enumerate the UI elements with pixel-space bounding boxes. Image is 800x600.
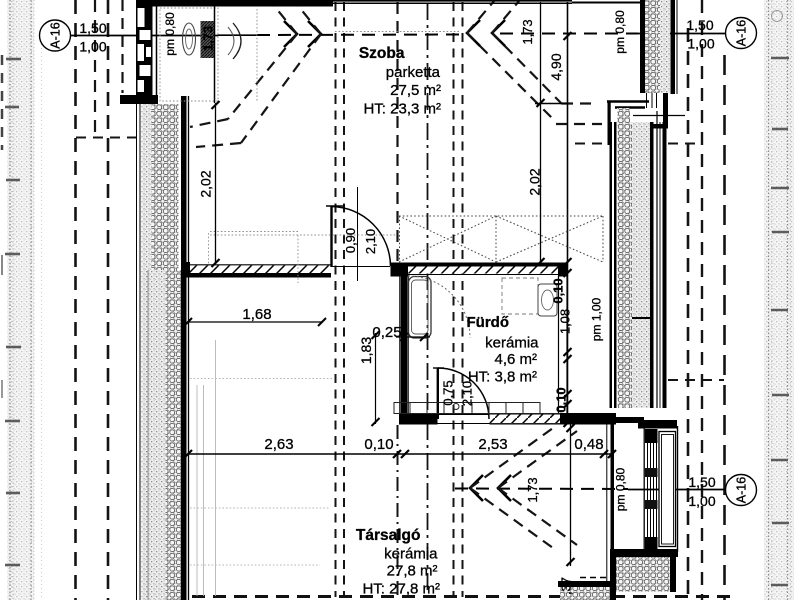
svg-text:2,53: 2,53 <box>478 436 507 453</box>
east wall window sill line (pm 1,00) <box>632 317 653 319</box>
bathtub <box>408 276 470 338</box>
svg-text:1,73: 1,73 <box>525 477 540 502</box>
svg-text:kerámia: kerámia <box>485 335 539 352</box>
svg-text:1,50: 1,50 <box>688 474 715 490</box>
bathroom east wall <box>559 276 568 413</box>
loggia edge line top left <box>214 0 216 103</box>
svg-text:1,08: 1,08 <box>558 309 573 334</box>
svg-text:27,8 m²: 27,8 m² <box>387 563 438 580</box>
skylight dotted box with X braces <box>399 216 603 262</box>
roof hip dashed diagonals top left <box>190 2 321 147</box>
svg-text:Szoba: Szoba <box>359 45 405 62</box>
svg-text:2,10: 2,10 <box>363 229 378 254</box>
svg-text:0,10: 0,10 <box>551 278 566 303</box>
dimension 1,73 bottom right <box>567 424 575 566</box>
west wall window (top left) <box>136 0 157 96</box>
section circle A-16 bottom right <box>726 475 757 506</box>
roof ridge dashed vertical pair right of center <box>454 2 463 597</box>
svg-text:1,50: 1,50 <box>686 17 713 33</box>
washing machine dashed <box>502 278 538 314</box>
east exterior wall main run <box>610 111 667 408</box>
bathroom south wall <box>399 413 616 425</box>
roof hip dashed diagonals top right <box>467 1 602 124</box>
svg-text:1,83: 1,83 <box>358 337 374 364</box>
north exterior wall <box>152 0 641 7</box>
north-east wall column <box>640 0 677 94</box>
svg-text:1,73: 1,73 <box>201 26 216 51</box>
svg-text:parketta: parketta <box>386 64 441 81</box>
left margin ruler strip <box>2 0 42 600</box>
right margin ruler strip <box>764 0 794 600</box>
svg-text:4,90: 4,90 <box>548 53 564 80</box>
svg-text:0,75: 0,75 <box>441 380 456 405</box>
svg-text:0,10: 0,10 <box>364 436 393 453</box>
svg-text:1,73: 1,73 <box>520 19 535 44</box>
dimension 2,02 east <box>537 2 545 266</box>
svg-text:0,10: 0,10 <box>554 387 569 412</box>
svg-text:HT: 27,8 m²: HT: 27,8 m² <box>362 581 440 598</box>
svg-text:pm 1,00: pm 1,00 <box>590 297 604 341</box>
door pier block <box>391 263 409 277</box>
bottom dimension row 2,63 0,10 2,53 0,48 <box>184 450 616 458</box>
kitchen counter faint lines bottom left <box>190 340 332 596</box>
svg-text:2,63: 2,63 <box>264 436 293 453</box>
szoba east wall face line <box>567 2 569 424</box>
bottom roof overhang dashed line <box>150 595 730 598</box>
section circle A-16 top right <box>726 18 757 49</box>
svg-text:4,6 m²: 4,6 m² <box>494 351 537 368</box>
svg-text:A-16: A-16 <box>735 477 749 503</box>
svg-text:1,00: 1,00 <box>688 493 715 509</box>
bathroom door leaf and swing <box>433 368 489 419</box>
east wall step at szoba corner <box>535 93 685 145</box>
svg-text:0,48: 0,48 <box>574 436 603 453</box>
svg-text:1,00: 1,00 <box>687 36 714 52</box>
room label tarsalgo <box>356 527 440 598</box>
roof hip dashed diagonals bottom right <box>470 428 577 548</box>
bathroom north wall <box>408 263 568 277</box>
dimension 2,02 west <box>212 101 220 267</box>
svg-text:A-16: A-16 <box>735 20 749 46</box>
szoba faint furniture outline (bed) <box>209 232 398 284</box>
chimney flue symbol <box>183 21 242 59</box>
svg-text:1,00: 1,00 <box>79 39 106 55</box>
svg-text:Társalgó: Társalgó <box>356 527 421 544</box>
wash basin <box>538 284 557 316</box>
svg-text:1,50: 1,50 <box>79 20 106 36</box>
section circle A-16 top left <box>40 20 71 51</box>
dimension 1,83 vertical <box>372 331 380 426</box>
svg-text:HT: 3,8 m²: HT: 3,8 m² <box>468 369 537 386</box>
svg-text:pm 0,80: pm 0,80 <box>163 12 177 56</box>
slope arrowheads on bottom section line <box>470 475 511 501</box>
section line A-16 top <box>69 34 725 36</box>
dimension ticks on 4,90 line <box>564 32 572 427</box>
room label szoba <box>359 45 441 118</box>
west exterior wall <box>137 96 189 600</box>
bathroom counter <box>394 403 540 414</box>
west wall top corner block <box>120 95 158 104</box>
svg-text:HT: 23,3 m²: HT: 23,3 m² <box>363 101 441 118</box>
svg-text:,37: ,37 <box>559 577 574 595</box>
tarsalgo east wall face <box>607 424 614 600</box>
svg-text:A-16: A-16 <box>49 22 63 48</box>
roof valley dashed line x=397 <box>396 2 398 597</box>
szoba door leaf and swing <box>326 187 391 281</box>
svg-text:1,68: 1,68 <box>242 306 271 323</box>
slope arrowheads on top section line <box>284 20 505 47</box>
svg-text:2,02: 2,02 <box>198 170 214 197</box>
dimension line 1,68 <box>184 318 326 326</box>
bathroom west wall <box>400 265 409 424</box>
dimension 0,25 <box>396 333 430 341</box>
svg-text:Fürdő: Fürdő <box>467 314 510 331</box>
svg-text:0,90: 0,90 <box>343 228 358 253</box>
svg-text:kerámia: kerámia <box>384 546 438 563</box>
section line A-16 bottom right <box>455 489 725 490</box>
loggia dotted outline top left <box>160 8 460 101</box>
svg-text:27,5 m²: 27,5 m² <box>390 82 441 99</box>
centre axis dash-dot x=427 <box>427 3 429 597</box>
south-east window (pm 0,80) <box>616 417 678 552</box>
svg-text:2,02: 2,02 <box>527 168 543 195</box>
south-east wall step <box>558 549 678 600</box>
szoba south wall (to hall) <box>183 262 331 278</box>
svg-text:pm 0,80: pm 0,80 <box>613 10 627 54</box>
svg-text:pm 0,80: pm 0,80 <box>614 467 628 511</box>
roof ridge dashed vertical pair left of center <box>336 2 345 597</box>
room label furdo <box>467 314 540 386</box>
